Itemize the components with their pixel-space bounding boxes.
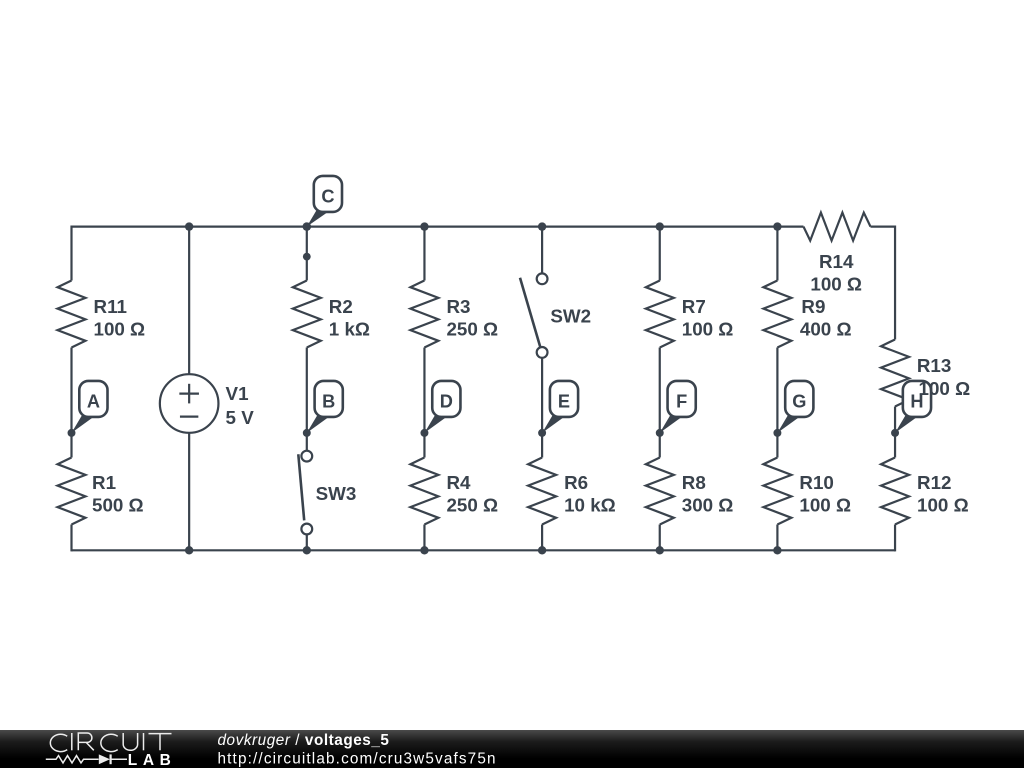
svg-text:R10: R10 (799, 472, 833, 493)
wire V1 branch upper (188, 227, 190, 375)
node A label (68, 381, 108, 437)
svg-text:E: E (558, 392, 570, 412)
svg-text:F: F (676, 392, 687, 412)
svg-text:500 Ω: 500 Ω (92, 495, 144, 516)
svg-text:R8: R8 (682, 472, 706, 493)
resistor R9 (763, 281, 851, 348)
wire left branch upper (top to R11) (70, 226, 72, 281)
svg-text:100 Ω: 100 Ω (682, 319, 734, 340)
svg-text:R2: R2 (329, 296, 353, 317)
node H label (891, 381, 931, 437)
wire SW2 branch upper (541, 227, 543, 274)
wire R2 branch upper (C to R2) (306, 227, 308, 281)
junction dot bottom wire at V1 branch (185, 546, 193, 554)
svg-text:C: C (321, 187, 334, 207)
footer URL (218, 750, 497, 767)
junction dot bottom wire at R10 branch (773, 546, 781, 554)
wire R4 to bottom (423, 525, 425, 551)
svg-text:250 Ω: 250 Ω (446, 319, 498, 340)
junction dot top wire at R2 branch (303, 222, 311, 230)
resistor R8 (646, 458, 734, 525)
svg-text:R4: R4 (446, 472, 471, 493)
junction dot top wire at SW2 branch (538, 222, 546, 230)
svg-text:100 Ω: 100 Ω (810, 273, 862, 294)
svg-text:100 Ω: 100 Ω (799, 495, 851, 516)
svg-text:V1: V1 (226, 383, 249, 404)
junction dot top wire at R3 branch (420, 222, 428, 230)
svg-text:R11: R11 (94, 296, 127, 317)
resistor R4 (410, 458, 498, 525)
node B label (303, 381, 343, 437)
svg-text:R9: R9 (801, 296, 825, 317)
wire top right segment R14 to corner (871, 226, 896, 228)
resistor R11 (58, 281, 146, 348)
wire R9 branch middle (R9 to R10 through node G) (776, 348, 778, 458)
junction dot top wire at V1 branch (185, 222, 193, 230)
node G label (773, 381, 813, 437)
resistor R7 (646, 281, 734, 348)
wire R2 branch middle (R2 to SW3 through node B) (306, 348, 308, 451)
svg-text:1 kΩ: 1 kΩ (329, 319, 370, 340)
resistor R1 (58, 458, 144, 525)
junction dot bottom wire at R8 branch (656, 546, 664, 554)
junction dot bottom wire at SW3 branch (303, 546, 311, 554)
svg-text:100 Ω: 100 Ω (917, 495, 969, 516)
svg-text:400 Ω: 400 Ω (800, 319, 852, 340)
svg-text:R1: R1 (92, 472, 116, 493)
CircuitLab logo resistor-diode glyph (46, 754, 127, 764)
footer credit line: author / title (218, 732, 390, 749)
node F label (656, 381, 696, 437)
wire V1 branch lower (188, 433, 190, 551)
svg-text:SW2: SW2 (550, 306, 591, 327)
svg-text:A: A (87, 392, 100, 412)
svg-text:R7: R7 (682, 296, 706, 317)
svg-text:R12: R12 (917, 472, 951, 493)
resistor R3 (410, 281, 498, 348)
svg-text:R13: R13 (917, 355, 951, 376)
junction dot top wire at R9 branch (773, 222, 781, 230)
switch SW3 (298, 451, 356, 535)
wire right branch lower (R12 to bottom) (894, 525, 896, 552)
resistor R6 (528, 458, 616, 525)
svg-text:10 kΩ: 10 kΩ (564, 495, 616, 516)
wire R7 branch middle (R7 to R8 through node F) (659, 348, 661, 458)
svg-text:250 Ω: 250 Ω (446, 495, 498, 516)
svg-text:D: D (440, 392, 453, 412)
footer bar (0, 730, 1024, 768)
svg-text:http://circuitlab.com/cru3w5va: http://circuitlab.com/cru3w5vafs75n (218, 750, 497, 767)
junction dot bottom wire at R4 branch (420, 546, 428, 554)
wire bottom horizontal net (72, 549, 896, 551)
svg-text:B: B (322, 392, 335, 412)
junction dot top wire at R7 branch (656, 222, 664, 230)
CircuitLab logo wordmark CIRCUIT (hand-drawn thin letters) (50, 733, 171, 752)
junction dot bottom wire at R6 branch (538, 546, 546, 554)
svg-text:R3: R3 (446, 296, 470, 317)
switch SW2 (520, 273, 591, 357)
wire top horizontal net C (72, 226, 804, 228)
svg-text:LAB: LAB (128, 752, 177, 768)
node E label (538, 381, 578, 437)
svg-text:dovkruger / voltages_5: dovkruger / voltages_5 (218, 732, 390, 749)
resistor R13 (881, 340, 951, 407)
svg-text:R6: R6 (564, 472, 588, 493)
wire R6 to bottom (541, 525, 543, 551)
resistor R2 (293, 281, 370, 348)
node C label (303, 176, 342, 231)
CircuitLab logo wordmark LAB (128, 752, 177, 769)
svg-text:100 Ω: 100 Ω (919, 378, 971, 399)
svg-text:SW3: SW3 (316, 483, 357, 504)
wire left branch lower (R1 to bottom) (70, 525, 72, 552)
svg-text:300 Ω: 300 Ω (682, 495, 734, 516)
wire R3 branch upper (423, 227, 425, 281)
svg-text:R14: R14 (819, 251, 854, 272)
resistor R12 (881, 458, 969, 525)
svg-text:G: G (792, 392, 806, 412)
wire R8 to bottom (659, 525, 661, 551)
wire R10 to bottom (776, 525, 778, 551)
wire SW3 to bottom (306, 534, 308, 550)
resistor R14 (horizontal, top right) (804, 213, 871, 295)
resistor R10 (763, 458, 851, 525)
svg-text:5 V: 5 V (226, 407, 255, 428)
wire SW2 to R6 through node E (541, 358, 543, 458)
svg-text:100 Ω: 100 Ω (94, 319, 146, 340)
wire R3 branch middle (R3 to R4 through node D) (423, 348, 425, 458)
junction dot on R2 branch below node C (303, 253, 311, 261)
wire left branch middle (R11 to R1 through node A) (70, 348, 72, 458)
node D label (420, 381, 460, 437)
wire right branch upper (corner to R13) (894, 226, 896, 340)
wire R9 branch upper (776, 227, 778, 281)
voltage source V1 (160, 374, 254, 433)
wire right branch middle (R13 to R12 through node H) (894, 407, 896, 458)
wire R7 branch upper (659, 227, 661, 281)
